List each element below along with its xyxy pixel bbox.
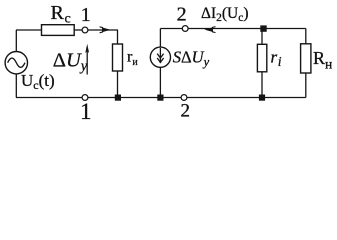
svg-text:2: 2 (177, 4, 187, 26)
svg-text:1: 1 (80, 99, 92, 124)
svg-text:2: 2 (181, 101, 191, 122)
svg-text:Uc(t): Uc(t) (21, 71, 55, 92)
svg-text:1: 1 (81, 4, 91, 26)
